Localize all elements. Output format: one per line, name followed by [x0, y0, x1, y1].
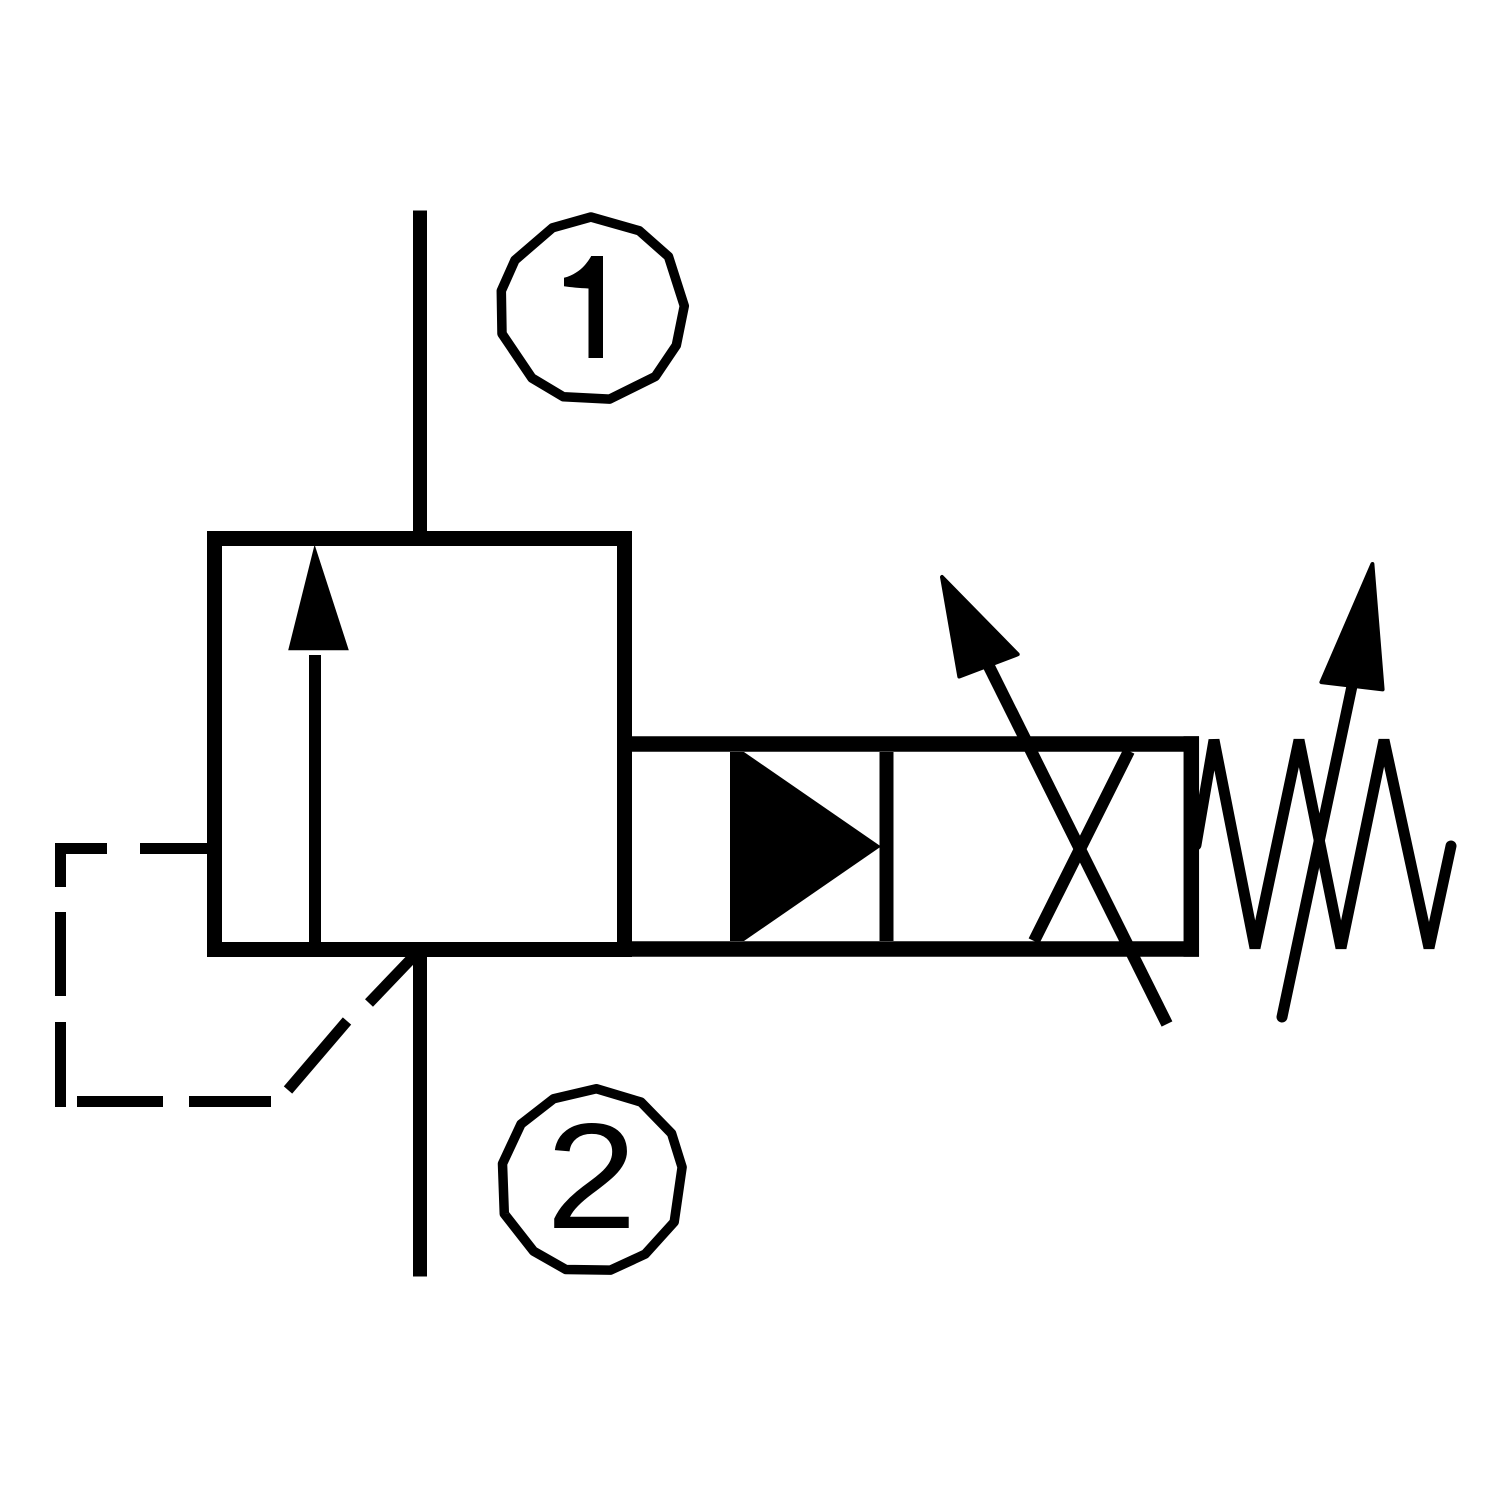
divider 1: [730, 752, 744, 941]
pilot stage box top edge: [617, 736, 1199, 752]
proportional arrow 2 head: [1321, 564, 1382, 689]
pilot line bottom horizontal dashes: [77, 1096, 163, 1107]
divider 2: [880, 752, 894, 941]
svg-text:2: 2: [546, 1093, 637, 1261]
port line 2: [413, 950, 427, 1277]
pilot line vertical dashes: [55, 843, 66, 887]
pilot line top horizontal dashes: [55, 843, 107, 854]
port 1 label: [564, 256, 603, 358]
pilot stage box right edge: [1184, 736, 1200, 956]
proportional arrow 2 shaft: [1282, 686, 1352, 1017]
spring: [1196, 740, 1451, 948]
pilot stage box bottom edge: [617, 941, 1199, 957]
X symbol slash: [1034, 751, 1129, 941]
main valve body: [215, 539, 625, 950]
port 2 circle: [503, 1089, 683, 1270]
port 1 circle: [501, 217, 684, 399]
flow arrow head: [288, 545, 349, 651]
port 2 label: [546, 1093, 637, 1261]
check valve triangle: [744, 752, 881, 941]
flow arrow shaft: [309, 655, 321, 948]
pilot line diagonal dashes: [288, 1021, 347, 1090]
proportional arrow 1 shaft: [989, 665, 1168, 1024]
port line 1: [413, 211, 427, 546]
proportional arrow 1 head: [942, 577, 1018, 677]
